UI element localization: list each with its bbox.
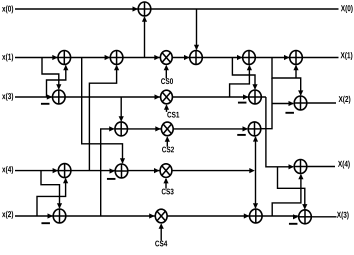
arrow into adder A10 top <box>119 116 124 122</box>
node x(2) <box>2 211 13 219</box>
minus at adder A11 <box>237 134 246 136</box>
wire row4 horizontal <box>128 128 248 130</box>
adder A17 X(3) <box>299 210 312 224</box>
minus at adder A17 <box>289 223 298 225</box>
arrow into adder A5 <box>237 55 243 60</box>
adder A11 <box>248 122 261 136</box>
node x(0) <box>2 5 13 13</box>
adder A15 x(2) minus <box>53 209 66 223</box>
arrow into adder A6 bottom <box>293 65 298 71</box>
adder A5 <box>243 51 256 65</box>
wire adder A15 output up to adder A10 left <box>101 129 114 216</box>
wire adder A14 output to X(4) <box>307 166 335 168</box>
arrow into adder A9 left <box>289 101 295 106</box>
label CS3 <box>162 189 174 195</box>
adder A9 X(2) <box>294 96 307 110</box>
arrow CS0 into multiplier bottom <box>164 65 169 71</box>
adder A10 <box>115 122 128 136</box>
wire row7 tap up to adder A14 bottom <box>272 175 301 216</box>
node x(1) <box>2 53 13 61</box>
adder A14 X(4) <box>294 160 307 174</box>
minus at adder A15 <box>41 222 50 224</box>
arrow CS1 into multiplier bottom <box>164 104 169 110</box>
multiplier M4 CS4 <box>155 209 167 223</box>
multiplier M3 CS3 <box>160 164 172 178</box>
wire x(4) tap down to adder A15 top <box>41 171 60 208</box>
arrow into adder A10 left <box>109 126 115 131</box>
wire row x(2) horizontal <box>15 215 298 217</box>
node X(1) <box>341 52 353 60</box>
adder A12 x(4)+x(2) <box>58 164 71 178</box>
adder A2 x(1)+x(3) <box>58 51 71 65</box>
arrow into adder A15 top <box>57 203 62 209</box>
wire coefficient CS4 into multiplier <box>160 224 162 240</box>
node X(2) <box>339 96 351 104</box>
arrow into adder A14 bottom <box>298 174 303 180</box>
wire adder A17 output to X(3) <box>311 216 336 218</box>
arrow into adder A8 <box>243 94 249 99</box>
arrow into adder A3 <box>105 55 111 60</box>
arrow into adder A14 left <box>289 164 295 169</box>
wire adder A9 output to X(2) <box>307 102 336 104</box>
arrow into adder A15 <box>48 213 54 218</box>
arrow into adder A7 <box>47 94 53 99</box>
node x(4) <box>2 166 13 174</box>
wire x(1) tap down to adder A7 <box>42 58 59 89</box>
wire bus down to joint with adder A8 output <box>266 78 272 129</box>
arrow into adder A8 top <box>252 84 257 90</box>
wire row2 tap jog to adder A9 top <box>272 58 301 95</box>
arrow into adder A1 bottom <box>142 16 147 22</box>
wire row2 up to adder A1 bottom <box>144 17 146 57</box>
adder A7 x(3) minus <box>53 90 66 104</box>
arrow CS2 into multiplier bottom <box>165 136 170 142</box>
wire coefficient CS0 into multiplier <box>165 66 167 79</box>
adder A16 <box>250 209 263 223</box>
arrow into adder A17 <box>293 214 299 219</box>
arrow into adder A12 bottom <box>63 178 68 184</box>
label CS4 <box>155 241 167 247</box>
minus at adder A8 <box>238 102 247 104</box>
wire row3 tap jog up to adder A5 bottom <box>230 66 250 98</box>
arrow into adder A16 top <box>253 203 258 209</box>
arrow into adder A3 bottom <box>114 65 119 71</box>
arrow CS3 into multiplier bottom <box>163 178 168 184</box>
arrow into adder A12 <box>53 168 59 173</box>
arrow into multiplier M3 <box>154 168 160 173</box>
arrow into adder A5 bottom <box>247 65 252 71</box>
arrow row5 into bus <box>249 168 255 173</box>
wire x(3) tap up to adder A2 <box>47 66 66 98</box>
label CS2 <box>162 147 174 153</box>
wire row x(3) horizontal <box>15 96 266 98</box>
multiplier M0 CS0 <box>160 51 172 65</box>
arrow into adder A2 bottom <box>63 65 68 71</box>
arrow into adder A9 top <box>298 90 303 96</box>
wire row2 tap jog down to adder A8 top <box>232 58 255 89</box>
arrow into multiplier M0 <box>154 55 160 60</box>
arrow into adder A1 <box>133 6 139 11</box>
adder A13 <box>115 164 128 178</box>
wire row3 tap down to adder A10 top <box>120 97 122 121</box>
minus at adder A9 <box>285 112 294 114</box>
arrow into adder A11 bottom <box>253 136 258 142</box>
adder A6 X(1) <box>290 51 303 65</box>
node x(3) <box>2 93 13 101</box>
arrow into adder A4 <box>184 55 190 60</box>
wire adder A8 output down to adder A14 left <box>266 97 293 167</box>
wire coefficient CS2 into multiplier <box>166 137 168 146</box>
arrow into adder A13 <box>110 168 116 173</box>
label CS0 <box>161 78 173 84</box>
wire adder A2 output down to adder A13 top <box>82 58 123 163</box>
wire row x(0) horizontal <box>15 8 339 10</box>
arrow into adder A13 top <box>120 158 125 164</box>
wire row x(1) horizontal <box>15 57 339 59</box>
minus at adder A7 <box>41 103 50 105</box>
node X(4) <box>338 161 350 169</box>
wire adder A11 output stub to bus <box>261 128 266 130</box>
arrow into multiplier M2 <box>155 126 161 131</box>
arrow into adder A11 <box>243 126 249 131</box>
adder A3 <box>110 51 123 65</box>
minus at adder A13 <box>107 178 116 180</box>
wire branch x(0) down to adder A4 <box>196 9 198 49</box>
arrow into multiplier M4 <box>149 213 155 218</box>
wire coefficient CS1 into multiplier <box>166 105 168 112</box>
arrow into adder A7 top <box>56 84 61 90</box>
wire bus branch to adder A9 left <box>272 103 293 105</box>
multiplier M1 CS1 <box>161 90 173 104</box>
arrow into adder A2 <box>52 55 58 60</box>
wire jog branch up to adder A6 bottom <box>295 66 297 79</box>
wire x(2) tap up to adder A12 bottom <box>37 179 66 216</box>
wire coefficient CS3 into multiplier <box>165 179 167 189</box>
arrow into multiplier M1 <box>155 94 161 99</box>
wire row x(4) horizontal <box>15 170 252 172</box>
arrow into adder A6 <box>284 55 290 60</box>
multiplier M2 CS2 <box>161 122 173 136</box>
wire bus branch to adder A17 top <box>278 167 305 209</box>
node X(0) <box>341 5 353 13</box>
wire bus between adder A11 bottom and adder A16 top <box>255 137 257 208</box>
wire adder A12 output up to adder A3 bottom <box>89 66 116 171</box>
arrow into adder A17 top <box>302 204 307 210</box>
arrow into adder A4 top <box>194 45 199 51</box>
adder A8 <box>249 90 262 104</box>
adder A4 <box>190 51 203 65</box>
arrow CS4 into multiplier bottom <box>159 223 164 229</box>
node X(3) <box>337 211 349 219</box>
arrow into adder A16 <box>244 213 250 218</box>
label CS1 <box>167 112 179 118</box>
adder A1 row1 <box>138 2 151 16</box>
